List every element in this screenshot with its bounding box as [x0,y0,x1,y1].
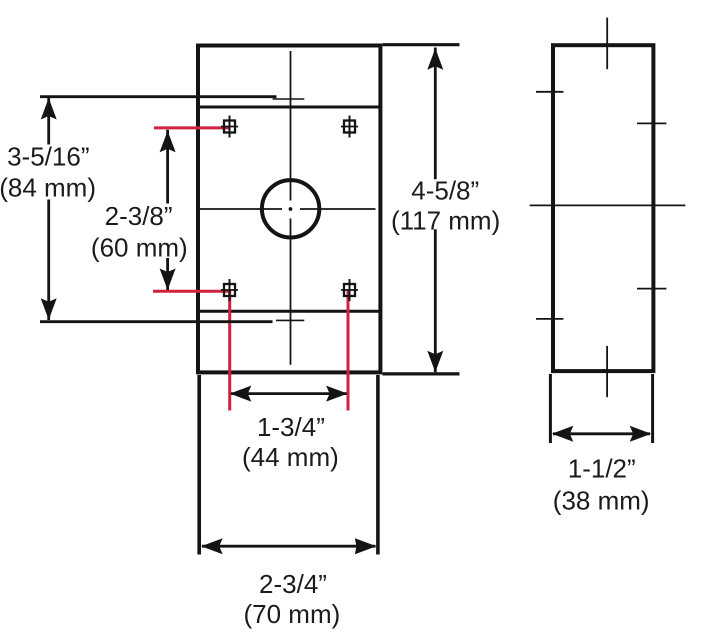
side view bottom center tick [606,346,608,397]
red locator line bottom-right vertical [347,290,350,411]
dimension line 1-3/4 [231,392,347,395]
horizontal centerline (right segment) [300,208,376,210]
arrowhead left 1-3/4 [230,386,252,402]
arrowhead right 1-1/2 [630,426,652,442]
svg-text:(70 mm): (70 mm) [244,599,341,629]
svg-text:4-5/8”: 4-5/8” [411,176,479,206]
arrowhead left 1-1/2 [552,426,574,442]
arrowhead down 2-3/8 [160,269,176,291]
arrowhead down 3-5/16 [41,298,57,320]
dimension line 2-3/8 upper segment [166,130,169,204]
center tick dash top [273,98,305,100]
side view left lower tick [536,318,563,320]
dimension line 2-3/4 [202,545,376,548]
side view right lower tick [637,288,666,290]
svg-text:(84 mm): (84 mm) [0,172,96,202]
svg-text:2-3/4”: 2-3/4” [259,569,327,599]
hole marker bottom-left [221,279,238,301]
extension line for 3-5/16 top [40,95,277,98]
side view left upper tick [536,91,563,93]
horizontal centerline (left segment) [197,208,282,210]
arrowhead up 4-5/8 [427,48,443,69]
extension line for 1-1/2 left [549,374,552,443]
svg-text:(38 mm): (38 mm) [553,485,650,515]
front view inner top edge line [198,106,380,109]
extension line for 2-3/4 right [376,375,380,555]
svg-text:1-1/2”: 1-1/2” [568,453,636,483]
vertical centerline (lower segment) [290,219,292,365]
dimension line 3-5/16 lower segment [47,200,50,321]
extension line for 4-5/8 bottom [383,372,460,375]
arrowhead left 2-3/4 [201,538,223,554]
svg-text:1-3/4”: 1-3/4” [257,412,325,442]
red locator line top horizontal [154,126,231,129]
hole marker top-right [341,116,358,138]
center hole circle [262,180,319,237]
svg-text:(60 mm): (60 mm) [91,232,188,262]
center tick dash bottom [276,319,304,321]
center dot of circle [289,207,293,211]
svg-text:(117 mm): (117 mm) [391,206,500,236]
arrowhead down 4-5/8 [427,351,443,373]
arrowhead up 3-5/16 [41,98,57,120]
extension line for 2-3/4 left [197,375,201,555]
arrowhead right 2-3/4 [355,538,377,554]
side view top center tick [606,18,608,70]
svg-text:(44 mm): (44 mm) [242,442,339,472]
front view outer rectangle [198,46,380,373]
extension line for 3-5/16 bottom [40,320,273,323]
side view outer rectangle [553,45,653,371]
dimension line 4-5/8 upper segment [434,48,437,180]
svg-text:2-3/8”: 2-3/8” [105,201,173,231]
dimension line 4-5/8 lower segment [434,229,437,372]
dimension line 2-3/8 lower segment [166,258,169,290]
hole marker top-left [221,116,238,138]
hole marker bottom-right [341,279,358,301]
front view inner bottom edge line [198,310,380,313]
arrowhead up 2-3/8 [160,131,176,153]
extension line for 4-5/8 top [383,43,460,46]
dimension line 3-5/16 upper segment [47,98,50,145]
red locator line bottom-left vertical [228,290,231,411]
side view horizontal centerline [530,204,686,206]
side view right upper tick [637,122,666,124]
vertical centerline (upper segment) [290,51,292,201]
svg-text:3-5/16”: 3-5/16” [7,141,89,171]
red locator line bottom horizontal [153,290,231,293]
extension line for 1-1/2 right [651,374,654,443]
arrowhead right 1-3/4 [326,386,348,402]
dimension line 1-1/2 [553,432,650,435]
